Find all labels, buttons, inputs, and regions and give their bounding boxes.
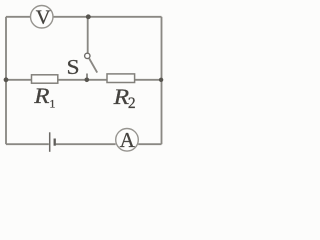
svg-text:S: S	[66, 55, 79, 79]
svg-text:V: V	[36, 7, 51, 29]
svg-text:2: 2	[128, 95, 136, 112]
svg-text:R: R	[33, 84, 49, 108]
svg-text:A: A	[120, 128, 136, 152]
svg-text:1: 1	[49, 96, 55, 110]
